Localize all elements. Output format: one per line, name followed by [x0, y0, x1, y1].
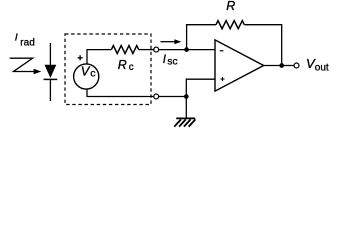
wire Vc bottom to bottom terminal	[87, 89, 154, 96]
svg-text:R: R	[118, 58, 127, 72]
svg-text:sc: sc	[167, 57, 177, 68]
wire Rc to top terminal	[139, 49, 154, 51]
svg-text:I: I	[15, 31, 18, 43]
node C (junction dot at output/feedback)	[279, 63, 284, 68]
op-amp U1	[215, 40, 264, 91]
wire non-inverting input	[186, 79, 215, 96]
label V_out	[306, 56, 329, 73]
svg-text:c: c	[90, 67, 95, 79]
terminal (bottom, open circle)	[154, 94, 159, 99]
wire top terminal to op-amp inverting input	[159, 49, 215, 51]
wire op-amp output	[264, 65, 295, 67]
label I_sc	[163, 54, 178, 68]
voltage source Vc	[74, 64, 99, 90]
wire Vc top to resistor Rc	[87, 50, 111, 64]
svg-text:c: c	[129, 62, 134, 73]
wire bottom terminal to junction	[159, 96, 187, 98]
current arrow I_sc	[161, 39, 182, 44]
terminal (top, open circle)	[154, 47, 159, 52]
resistor R (feedback)	[216, 21, 244, 29]
wire feedback left vertical	[187, 25, 216, 50]
plus polarity mark of Vc	[78, 55, 83, 60]
ground	[174, 97, 195, 127]
terminal (output, open circle)	[294, 63, 299, 68]
svg-text:rad: rad	[20, 38, 34, 49]
wire feedback right vertical	[244, 25, 281, 66]
incident light arrow	[10, 58, 42, 74]
resistor Rc	[111, 46, 138, 54]
node B (junction dot at non-inverting branch)	[184, 94, 189, 99]
svg-text:out: out	[315, 62, 329, 73]
photodiode D1	[44, 43, 58, 101]
label Rc	[118, 58, 134, 73]
svg-text:R: R	[226, 0, 235, 13]
node A (junction dot at inverting input)	[184, 47, 189, 52]
dashed equivalent-circuit box	[65, 34, 151, 105]
label I_rad	[15, 31, 35, 48]
